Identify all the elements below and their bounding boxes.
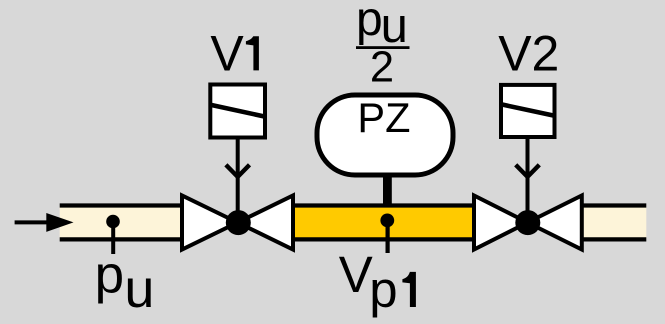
valve V1 body xyxy=(182,196,293,250)
valve V2 body xyxy=(474,196,582,250)
svg-text:p: p xyxy=(356,0,383,46)
node pu tap dot on left pipe xyxy=(106,215,120,254)
actuator stem arrow V1 xyxy=(226,138,250,214)
label Vp1 (bottom middle) xyxy=(339,246,416,318)
node Vp1 tap dot on middle pipe xyxy=(380,214,394,254)
label pu/2 fraction xyxy=(356,0,410,91)
actuator box V1 xyxy=(210,85,265,138)
svg-text:V: V xyxy=(339,246,373,303)
label V1 xyxy=(210,25,259,81)
label pu (bottom left) xyxy=(95,245,155,319)
svg-text:PZ: PZ xyxy=(357,94,410,141)
svg-text:V: V xyxy=(210,25,244,81)
pipe segment left (upstream, cream) xyxy=(60,206,183,240)
pipe segment middle (gold) xyxy=(293,206,474,240)
svg-text:V2: V2 xyxy=(498,26,559,82)
inlet flow arrow xyxy=(15,213,74,232)
actuator stem arrow V2 xyxy=(516,138,540,214)
pressure sensor PZ xyxy=(317,94,453,175)
svg-text:u: u xyxy=(124,259,154,319)
sensor stub (PZ to pipe) xyxy=(383,175,392,207)
svg-text:2: 2 xyxy=(370,43,394,91)
svg-text:p: p xyxy=(95,245,124,304)
pipe segment right (downstream, cream) xyxy=(582,206,646,240)
actuator box V2 xyxy=(501,85,555,137)
svg-text:p: p xyxy=(369,261,397,318)
